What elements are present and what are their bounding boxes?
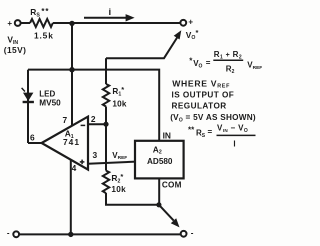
svg-text:10k: 10k <box>111 185 126 194</box>
svg-text:IN: IN <box>163 131 171 141</box>
svg-text:IS OUTPUT OF: IS OUTPUT OF <box>172 90 235 99</box>
svg-text:2: 2 <box>91 114 96 124</box>
svg-text:+: + <box>188 18 193 27</box>
svg-text:6: 6 <box>30 132 35 142</box>
svg-text:(VO = 5V AS SHOWN): (VO = 5V AS SHOWN) <box>170 113 256 123</box>
svg-text:-: - <box>191 229 194 238</box>
svg-text:7: 7 <box>62 115 67 125</box>
svg-text:LED: LED <box>39 89 55 98</box>
svg-text:1.5k: 1.5k <box>34 31 54 41</box>
svg-text:10k: 10k <box>112 99 127 108</box>
svg-text:REGULATOR: REGULATOR <box>172 102 227 111</box>
svg-text:R1 + R2: R1 + R2 <box>214 50 242 60</box>
svg-text:4: 4 <box>72 163 77 173</box>
svg-text:i: i <box>108 7 111 18</box>
svg-text:**: ** <box>188 126 195 135</box>
svg-text:=: = <box>206 58 211 67</box>
svg-text:3: 3 <box>92 150 97 160</box>
svg-text:-: - <box>7 229 10 238</box>
svg-text:741: 741 <box>63 137 80 147</box>
svg-text:COM: COM <box>162 180 182 189</box>
svg-text:AD580: AD580 <box>147 157 173 166</box>
svg-text:MV50: MV50 <box>39 99 61 108</box>
svg-text:+: + <box>7 19 12 28</box>
svg-text:VIN − VO: VIN − VO <box>217 124 248 134</box>
svg-text:I: I <box>233 140 235 149</box>
svg-text:=: = <box>208 127 213 136</box>
svg-text:(15V): (15V) <box>4 45 26 55</box>
